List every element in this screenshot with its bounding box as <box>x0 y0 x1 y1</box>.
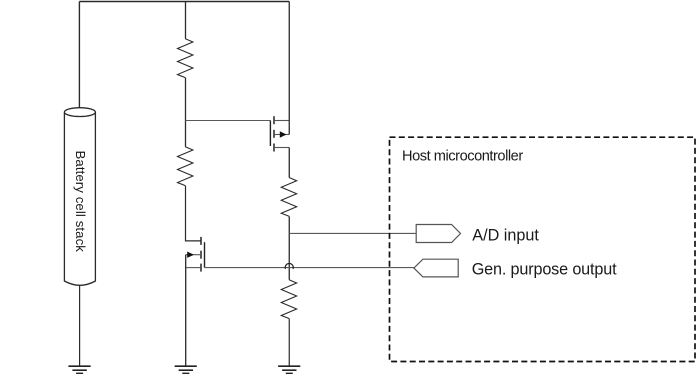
node A/D tap, wire to A/D input <box>289 232 416 234</box>
wire battery negative lead to ground <box>79 286 81 366</box>
resistor R3 <box>281 178 296 217</box>
ground (R4) <box>278 366 300 373</box>
battery cell stack (cylinder) <box>64 108 95 286</box>
wire gate of Q1 <box>186 120 271 122</box>
wire R3 to R4 through A/D node <box>288 216 290 279</box>
svg-text:Battery cell stack: Battery cell stack <box>73 151 88 253</box>
wire R1 to R2 through gate node <box>185 78 187 147</box>
gate bar <box>269 121 271 147</box>
ground (battery) <box>68 366 90 373</box>
wire Q1 drain to top rail <box>288 2 290 135</box>
channel bars <box>200 237 202 245</box>
wire top rail from battery to Q1 drain <box>79 1 289 3</box>
svg-text:A/D input: A/D input <box>472 226 539 244</box>
body lead with arrow <box>186 254 201 256</box>
body lead with arrow <box>274 134 289 136</box>
wire Q2 gate to Gen. purpose output <box>205 267 414 269</box>
transistor Q2 (n-channel MOSFET, mirrored) <box>186 237 205 272</box>
wire R4 to ground <box>288 319 290 367</box>
resistor R2 <box>178 147 193 186</box>
pin Gen. purpose output tag <box>414 259 458 277</box>
host microcontroller dashed box <box>390 137 696 361</box>
ground (Q2 source) <box>175 366 197 373</box>
svg-text:Host microcontroller: Host microcontroller <box>402 149 523 165</box>
transistor Q1 (p-channel MOSFET) <box>270 116 289 151</box>
drain lead <box>274 120 289 122</box>
wire battery positive lead <box>78 2 80 108</box>
wire Q1 source to R3 <box>288 148 290 178</box>
pin A/D input tag <box>416 225 460 243</box>
wire R2 to Q2 drain <box>186 186 202 241</box>
wire Q2 body/source to ground <box>185 255 187 366</box>
resistor R1 <box>178 39 193 78</box>
label Gen. purpose output <box>472 260 617 278</box>
label Host microcontroller <box>402 149 523 165</box>
source lead <box>186 267 201 269</box>
label A/D input <box>472 226 539 244</box>
svg-text:Gen. purpose output: Gen. purpose output <box>472 260 617 278</box>
resistor R4 <box>281 280 296 319</box>
gate bar <box>204 242 206 267</box>
channel bars <box>273 116 275 124</box>
source lead <box>274 147 289 149</box>
wire hop over vertical at crossing <box>285 263 293 268</box>
wire top rail to R1 <box>185 2 187 39</box>
